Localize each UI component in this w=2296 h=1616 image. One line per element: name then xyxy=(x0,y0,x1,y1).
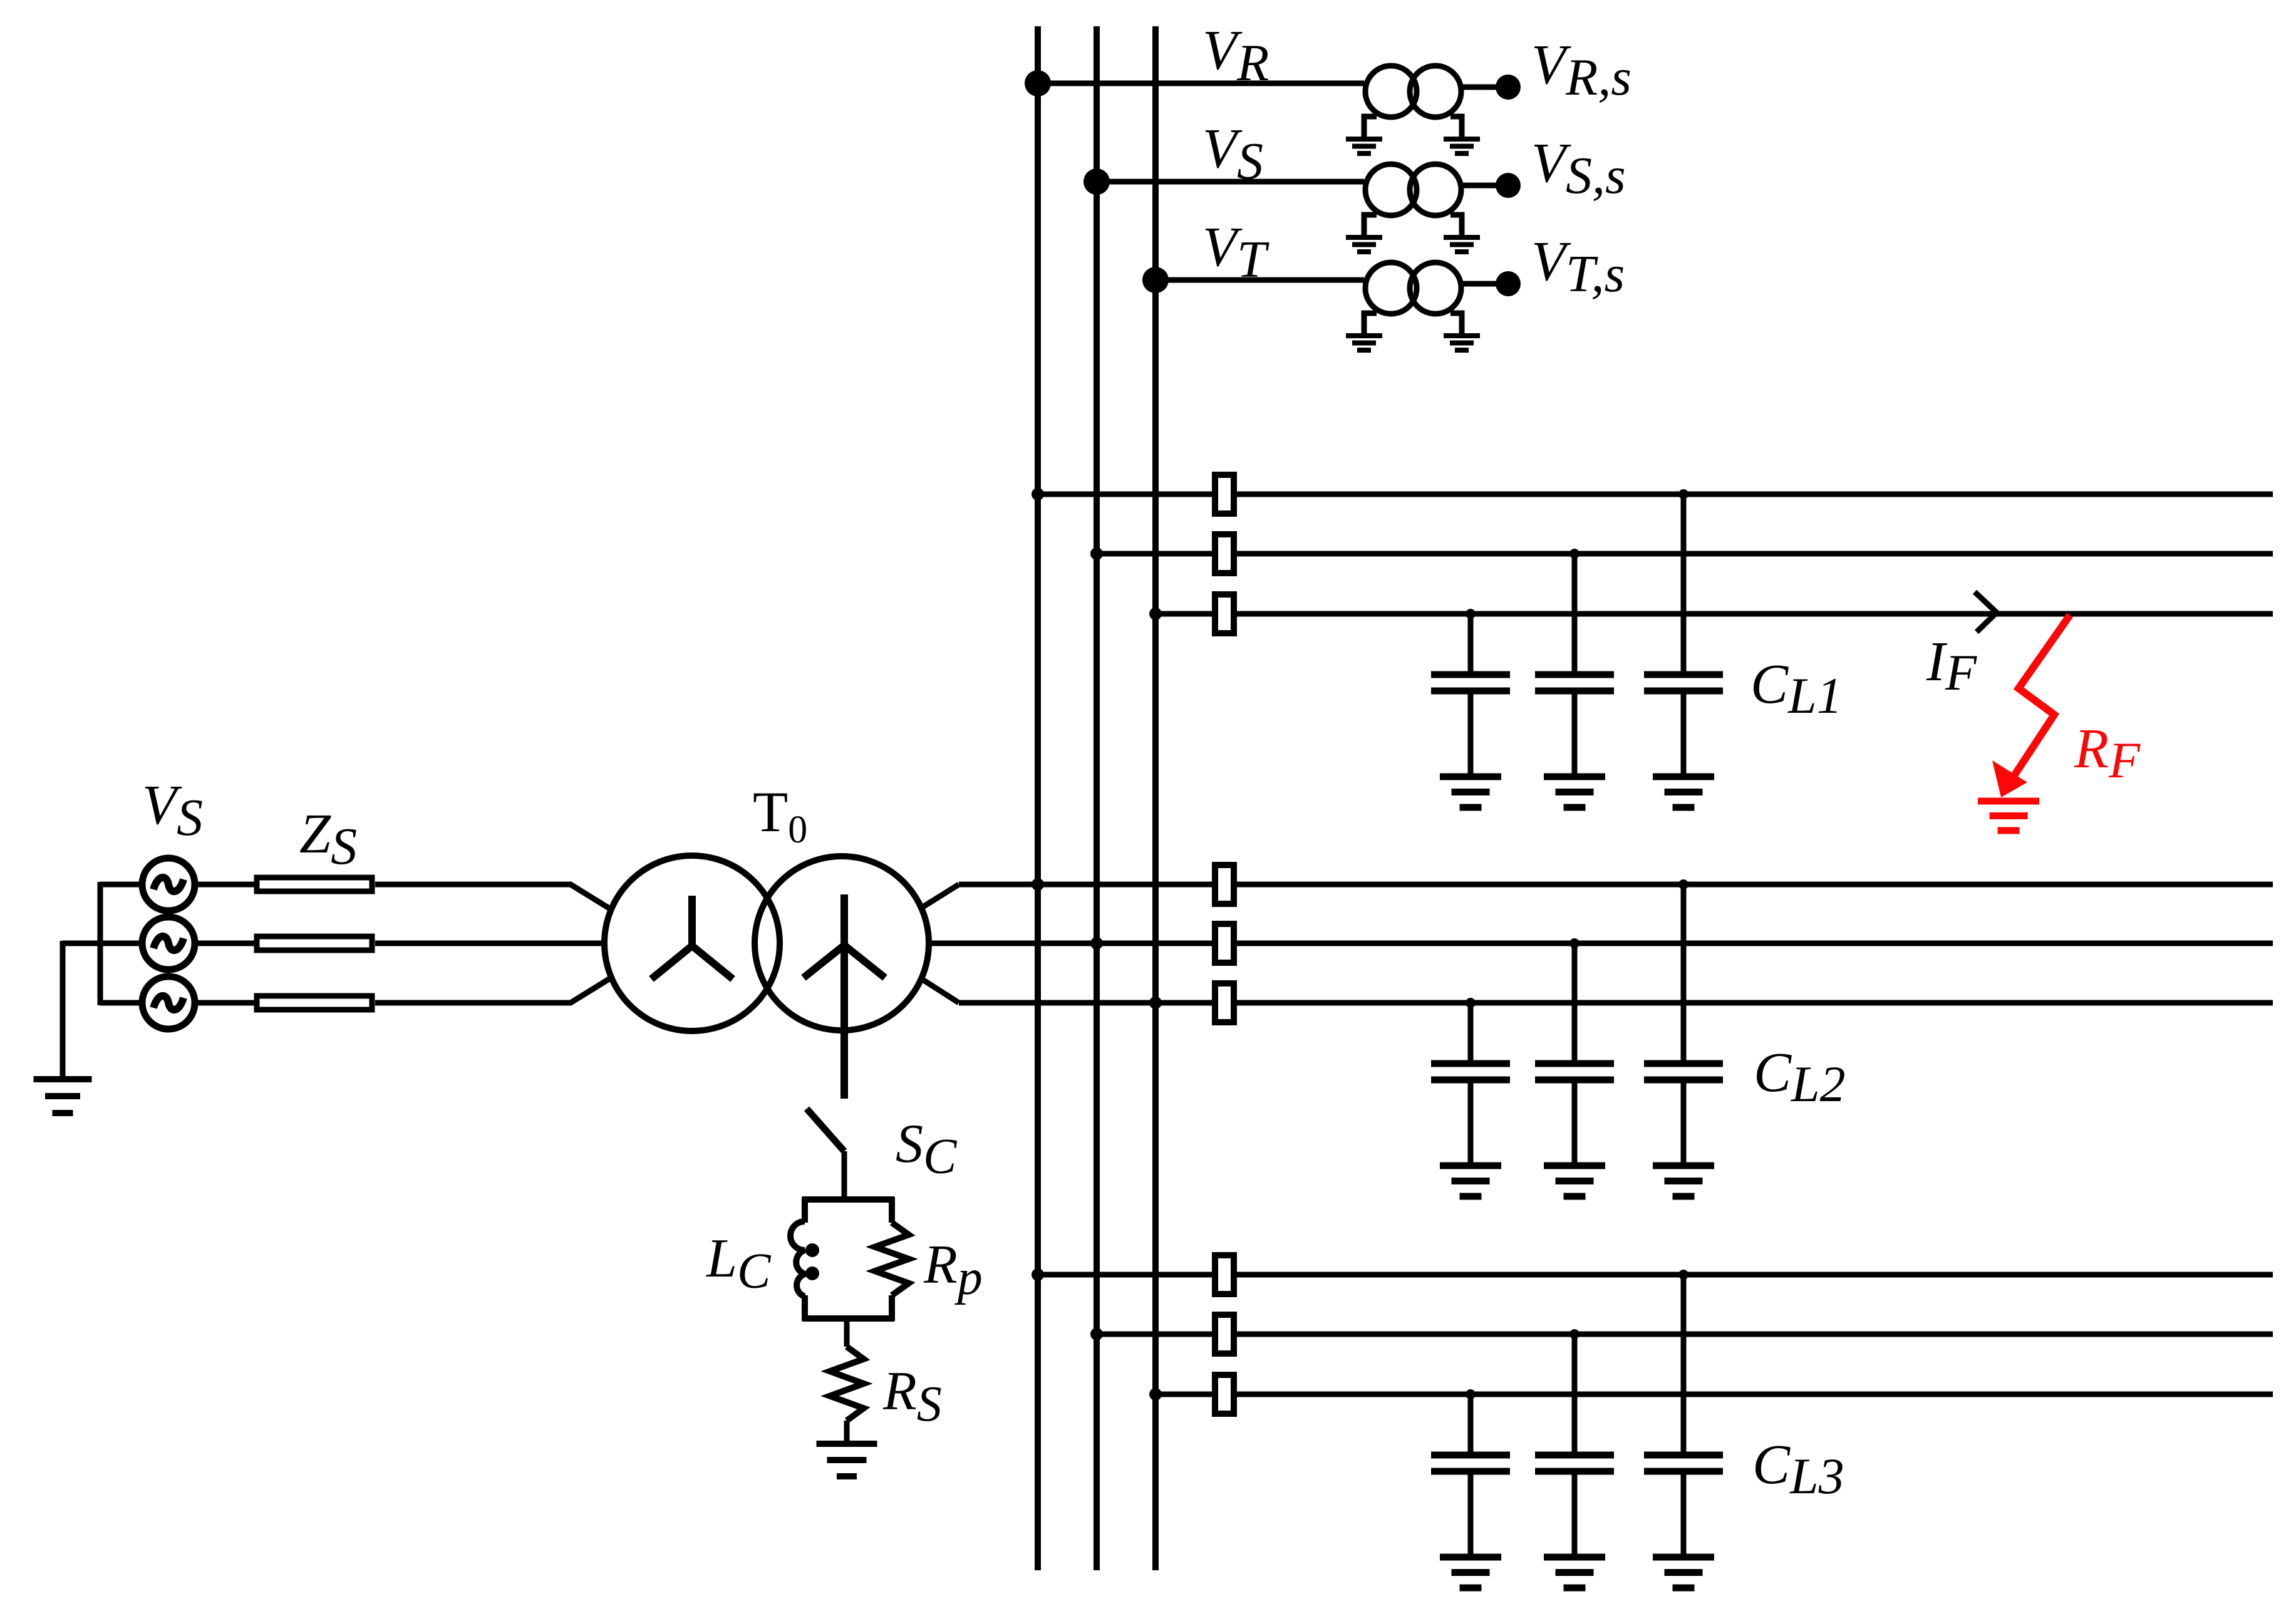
junction dot capacitor C_L2a tap xyxy=(1466,998,1476,1008)
capacitor C_L2b xyxy=(1535,1064,1614,1080)
wire box right upper xyxy=(889,1197,895,1223)
ground (VT-R secondary) xyxy=(1444,139,1480,153)
wire Z_S phase 2 to transformer xyxy=(375,941,604,946)
VT-R secondary ground stub xyxy=(1451,117,1462,137)
wire source 1 to neutral riser xyxy=(100,882,140,888)
wire neutral riser (phase1-phase3) xyxy=(98,882,103,1005)
disconnector feeder 2 phase 1 xyxy=(1215,865,1234,904)
wire switch to coil box xyxy=(842,1151,847,1199)
VT-T secondary ground stub xyxy=(1451,313,1462,334)
junction dot feeder 1 phase 2 at bus 2 xyxy=(1090,547,1103,560)
parallel combination box bottom bar xyxy=(802,1315,894,1322)
ground (VT-S primary) xyxy=(1346,237,1382,252)
node VT junction dot xyxy=(1142,267,1169,293)
ground (capacitor C_L2a) xyxy=(1440,1166,1501,1196)
junction dot capacitor C_L3c tap xyxy=(1678,1270,1688,1280)
wire feeder 3 phase 3 xyxy=(1156,1392,2273,1397)
wire feeder 1 phase 3 xyxy=(1156,611,2273,617)
junction dot feeder 3 phase 2 at bus 2 xyxy=(1090,1328,1103,1340)
wire box left lower xyxy=(802,1295,808,1321)
ground (VT-S secondary) xyxy=(1444,237,1480,252)
wire capacitor C_L1b lower stub xyxy=(1572,691,1578,777)
node VS junction dot xyxy=(1083,168,1110,195)
wire ground riser xyxy=(60,941,66,1079)
inductor L_C (Petersen coil) xyxy=(790,1221,819,1297)
switch S_C blade xyxy=(807,1109,844,1151)
disconnector feeder 1 phase 2 xyxy=(1215,534,1234,573)
transformer T0 secondary wye symbol with neutral stem xyxy=(804,894,885,1099)
capacitor C_L3c xyxy=(1644,1455,1723,1471)
junction dot capacitor C_L1c tap xyxy=(1678,489,1688,499)
ground (VT-T secondary) xyxy=(1444,336,1480,350)
capacitor C_L3a xyxy=(1431,1455,1510,1471)
wire box to R_s xyxy=(844,1318,850,1347)
bus bar 2 xyxy=(1094,26,1100,1570)
junction dot feeder 2 phase 3 at bus 3 xyxy=(1149,997,1162,1009)
capacitor C_L2a xyxy=(1431,1064,1510,1080)
wire capacitor C_L2b lower stub xyxy=(1572,1080,1578,1166)
wire Z_S phase 3 to transformer xyxy=(375,976,613,1003)
wire box left upper xyxy=(802,1197,808,1223)
ground (capacitor C_L1c) xyxy=(1653,777,1714,807)
capacitor C_L2c xyxy=(1644,1064,1723,1080)
VT-S secondary ground stub xyxy=(1451,215,1462,236)
AC source VS phase 1 xyxy=(142,858,195,911)
ground (VT-R primary) xyxy=(1346,139,1382,153)
junction dot capacitor C_L3b tap xyxy=(1569,1329,1580,1339)
wire capacitor C_L2c upper stub xyxy=(1681,884,1687,1060)
junction dot capacitor C_L3a tap xyxy=(1466,1389,1476,1399)
wire capacitor C_L2a lower stub xyxy=(1468,1080,1474,1166)
wire capacitor C_L2a upper stub xyxy=(1468,1003,1474,1060)
wire feeder 1 phase 2 xyxy=(1097,551,2273,557)
impedance Z_S phase 1 xyxy=(257,878,372,891)
wire bus to VT VS xyxy=(1097,179,1364,185)
voltage transformer VT-R xyxy=(1365,66,1461,117)
wire capacitor C_L3b upper stub xyxy=(1572,1334,1578,1452)
node VS,s terminal dot xyxy=(1496,173,1521,198)
AC source VS phase 3 xyxy=(142,976,195,1029)
wire feeder 2 phase 2 xyxy=(931,941,2273,946)
wire feeder 1 phase 1 xyxy=(1038,492,2273,497)
wire feeder 2 phase 1 xyxy=(959,882,2273,888)
ground (capacitor C_L1a) xyxy=(1440,777,1501,807)
disconnector feeder 2 phase 3 xyxy=(1215,983,1234,1022)
capacitor C_L1b xyxy=(1535,675,1614,691)
wire capacitor C_L3c upper stub xyxy=(1681,1275,1687,1452)
wire feeder 2 phase 3 xyxy=(959,1000,2273,1006)
ground (capacitor C_L3b) xyxy=(1544,1557,1605,1588)
parallel combination box (L_C, R_p) top bar xyxy=(802,1196,894,1203)
AC source VS phase 2 xyxy=(142,917,195,970)
wire capacitor C_L1c upper stub xyxy=(1681,494,1687,671)
wire transformer secondary phase 3 diagonal xyxy=(919,977,959,1003)
wire capacitor C_L1b upper stub xyxy=(1572,554,1578,671)
ground (VT-T primary) xyxy=(1346,336,1382,350)
ground (capacitor C_L1b) xyxy=(1544,777,1605,807)
ground (neutral chain) xyxy=(817,1444,877,1476)
wire source 3 to Z_S xyxy=(197,1000,254,1006)
resistor R_s xyxy=(830,1347,864,1421)
disconnector feeder 1 phase 1 xyxy=(1215,475,1234,514)
wire feeder 3 phase 1 xyxy=(1038,1272,2273,1278)
disconnector feeder 1 phase 3 xyxy=(1215,594,1234,633)
wire source 2 to ground riser xyxy=(63,941,140,946)
disconnector feeder 3 phase 3 xyxy=(1215,1375,1234,1414)
transformer T0 secondary winding circle xyxy=(755,856,929,1030)
ground (capacitor C_L3a) xyxy=(1440,1557,1501,1588)
junction dot feeder 1 phase 3 at bus 3 xyxy=(1149,608,1162,620)
impedance Z_S phase 3 xyxy=(257,996,372,1010)
ground (capacitor C_L3c) xyxy=(1653,1557,1714,1588)
wire capacitor C_L1a upper stub xyxy=(1468,614,1474,671)
wire source 3 to neutral riser xyxy=(100,1000,140,1006)
resistor R_p xyxy=(875,1223,909,1295)
bus bar 1 xyxy=(1035,26,1041,1570)
ground (fault, red) xyxy=(1978,801,2039,831)
capacitor C_L1a xyxy=(1431,675,1510,691)
wire bus to VT VR xyxy=(1038,81,1364,86)
junction dot feeder 3 phase 3 at bus 3 xyxy=(1149,1388,1162,1401)
bus bar 3 xyxy=(1152,26,1159,1570)
junction dot capacitor C_L2c tap xyxy=(1678,879,1688,889)
junction dot feeder 1 phase 1 at bus 1 xyxy=(1032,488,1044,500)
node VR junction dot xyxy=(1025,70,1051,96)
wire VT-T secondary output xyxy=(1463,281,1497,287)
capacitor C_L1c xyxy=(1644,675,1723,691)
disconnector feeder 3 phase 2 xyxy=(1215,1315,1234,1354)
wire capacitor C_L3c lower stub xyxy=(1681,1471,1687,1557)
wire capacitor C_L1a lower stub xyxy=(1468,691,1474,777)
wire box right lower xyxy=(889,1295,895,1321)
junction dot capacitor C_L1a tap xyxy=(1466,609,1476,619)
node VT,s terminal dot xyxy=(1496,271,1521,296)
ground (capacitor C_L2b) xyxy=(1544,1166,1605,1196)
wire capacitor C_L2b upper stub xyxy=(1572,943,1578,1060)
wire capacitor C_L3a upper stub xyxy=(1468,1394,1474,1452)
ground (capacitor C_L2c) xyxy=(1653,1166,1714,1196)
junction dot feeder 2 phase 2 at bus 2 xyxy=(1090,937,1103,950)
junction dot feeder 2 phase 1 at bus 1 xyxy=(1032,878,1044,891)
VT-S primary ground stub xyxy=(1364,215,1377,236)
VT-R primary ground stub xyxy=(1364,117,1377,137)
wire source 2 to Z_S xyxy=(197,941,254,946)
node VR,s terminal dot xyxy=(1496,75,1521,100)
wire capacitor C_L2c lower stub xyxy=(1681,1080,1687,1166)
capacitor C_L3b xyxy=(1535,1455,1614,1471)
voltage transformer VT-T xyxy=(1365,262,1461,314)
wire capacitor C_L1c lower stub xyxy=(1681,691,1687,777)
junction dot feeder 3 phase 1 at bus 1 xyxy=(1032,1268,1044,1281)
wire R_s to ground xyxy=(844,1421,850,1444)
ground (source neutral) xyxy=(34,1079,92,1113)
VT-T primary ground stub xyxy=(1364,313,1377,334)
voltage transformer VT-S xyxy=(1365,164,1461,215)
wire VT-S secondary output xyxy=(1463,183,1497,189)
transformer T0 primary wye symbol xyxy=(651,896,733,979)
junction dot capacitor C_L1b tap xyxy=(1569,549,1580,559)
impedance Z_S phase 2 xyxy=(257,936,372,950)
transformer T0 primary winding circle xyxy=(604,856,780,1031)
wire capacitor C_L3b lower stub xyxy=(1572,1471,1578,1557)
current arrow I_F on feeder 1 phase 3 xyxy=(1975,592,1997,632)
junction dot capacitor C_L2b tap xyxy=(1569,938,1580,948)
wire feeder 3 phase 2 xyxy=(1097,1332,2273,1337)
wire capacitor C_L3a lower stub xyxy=(1468,1471,1474,1557)
wire Z_S phase 1 to transformer xyxy=(375,884,613,911)
disconnector feeder 2 phase 2 xyxy=(1215,924,1234,963)
wire transformer secondary phase 1 diagonal xyxy=(919,884,959,909)
fault resistance R_F lightning bolt xyxy=(2009,615,2070,784)
disconnector feeder 3 phase 1 xyxy=(1215,1255,1234,1294)
wire source 1 to Z_S xyxy=(197,882,254,888)
wire bus to VT VT xyxy=(1156,277,1364,283)
wire VT-R secondary output xyxy=(1463,85,1497,90)
